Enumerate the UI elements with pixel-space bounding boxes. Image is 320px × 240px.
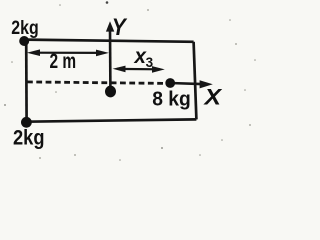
svg-text:2 m: 2 m	[50, 50, 77, 73]
svg-text:2kg: 2kg	[13, 126, 45, 150]
svg-text:Y: Y	[112, 14, 128, 41]
svg-text:8 kg: 8 kg	[152, 87, 191, 110]
svg-text:X: X	[202, 84, 222, 109]
svg-text:2kg: 2kg	[11, 17, 38, 39]
svg-text:3: 3	[146, 55, 154, 70]
